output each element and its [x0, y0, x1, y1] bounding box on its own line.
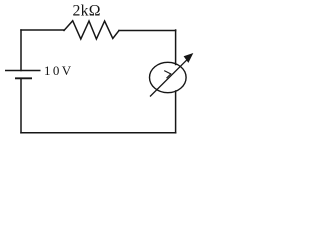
- resistor R1: [64, 21, 119, 39]
- wire right-lower: [175, 91, 177, 133]
- battery V1: [5, 71, 41, 79]
- battery short plate (-): [15, 77, 32, 79]
- wire top-left: [21, 29, 64, 31]
- meter M1 body: [150, 62, 187, 92]
- wire right-upper: [175, 30, 177, 65]
- svg-text:10V: 10V: [44, 63, 74, 78]
- small mid arrowhead: [164, 71, 171, 79]
- wire left-upper: [20, 30, 22, 71]
- wire left-lower: [20, 79, 22, 133]
- wire top-right: [119, 30, 176, 32]
- arrow through meter: [150, 60, 187, 97]
- wire bottom: [21, 132, 176, 134]
- battery long plate (+): [5, 70, 41, 72]
- svg-text:2kΩ: 2kΩ: [73, 3, 101, 20]
